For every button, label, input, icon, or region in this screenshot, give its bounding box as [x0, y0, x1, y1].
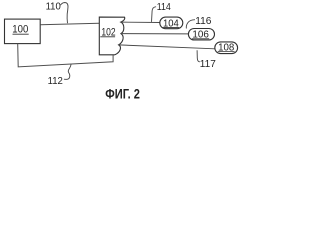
svg-text:112: 112: [48, 76, 63, 87]
wire from 100 to 102: [40, 23, 99, 24]
block 100: [5, 19, 41, 43]
svg-text:100: 100: [12, 23, 28, 35]
svg-text:117: 117: [200, 59, 216, 70]
label 114: [152, 2, 171, 22]
svg-text:110: 110: [46, 2, 61, 13]
wire to 108: [119, 45, 215, 49]
svg-text:114: 114: [157, 2, 171, 13]
label 117: [197, 50, 216, 70]
svg-text:116: 116: [195, 16, 211, 27]
svg-text:ФИГ. 2: ФИГ. 2: [105, 87, 140, 102]
bottom wire 100 to 102: [18, 44, 113, 67]
label 112: [48, 64, 72, 87]
label 110: [46, 2, 68, 24]
block 102: [99, 17, 124, 55]
wire to 104: [121, 21, 160, 23]
label 116: [186, 16, 211, 29]
node 108: [215, 42, 238, 54]
wire to 106: [121, 33, 189, 35]
node 104: [160, 17, 183, 29]
node 106: [188, 29, 214, 41]
